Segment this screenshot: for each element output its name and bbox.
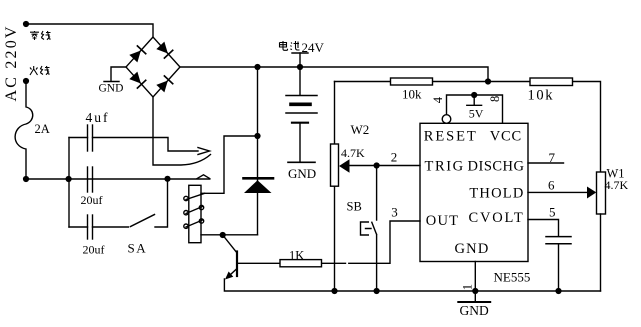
svg-text:DISCHG: DISCHG <box>468 159 525 175</box>
svg-text:GND: GND <box>454 241 489 257</box>
svg-text:1K: 1K <box>289 249 304 263</box>
svg-text:OUT: OUT <box>426 213 459 229</box>
svg-text:2A: 2A <box>35 122 50 136</box>
svg-text:10k: 10k <box>528 88 555 104</box>
svg-text:THOLD: THOLD <box>469 186 524 202</box>
svg-text:GND: GND <box>288 166 316 181</box>
svg-text:CVOLT: CVOLT <box>469 210 525 226</box>
svg-text:4.7K: 4.7K <box>605 178 629 192</box>
svg-text:VCC: VCC <box>490 129 522 145</box>
svg-text:24V: 24V <box>302 40 325 55</box>
svg-text:GND: GND <box>99 83 124 95</box>
svg-text:20uf: 20uf <box>83 243 105 257</box>
svg-text:4: 4 <box>431 96 445 103</box>
svg-text:2: 2 <box>391 150 398 165</box>
svg-text:20uf: 20uf <box>81 193 103 207</box>
svg-text:7: 7 <box>549 150 556 165</box>
svg-text:5V: 5V <box>469 107 484 121</box>
svg-text:6: 6 <box>548 178 555 193</box>
svg-text:1: 1 <box>460 284 474 290</box>
svg-text:10k: 10k <box>402 87 422 102</box>
svg-text:4uf: 4uf <box>86 110 110 125</box>
svg-text:4.7K: 4.7K <box>341 146 365 160</box>
svg-text:8: 8 <box>488 96 502 102</box>
svg-text:W2: W2 <box>351 122 370 137</box>
svg-text:NE555: NE555 <box>494 270 531 285</box>
svg-text:RESET: RESET <box>424 129 478 145</box>
svg-text:5: 5 <box>549 205 556 220</box>
svg-text:3: 3 <box>391 205 398 220</box>
svg-text:TRIG: TRIG <box>425 159 465 175</box>
svg-text:SA: SA <box>128 241 148 256</box>
svg-text:SB: SB <box>347 200 362 214</box>
svg-text:AC 220V: AC 220V <box>3 24 20 101</box>
svg-text:GND: GND <box>460 303 489 318</box>
